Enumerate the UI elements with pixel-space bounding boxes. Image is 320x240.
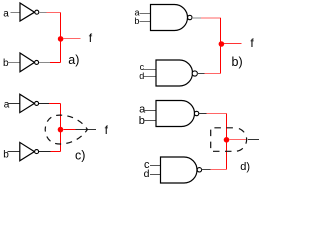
svg-text:a: a <box>139 104 146 116</box>
svg-text:a): a) <box>68 53 79 67</box>
svg-text:d: d <box>144 168 150 180</box>
svg-text:b: b <box>3 58 9 69</box>
svg-text:d): d) <box>240 161 250 173</box>
svg-text:b): b) <box>232 55 243 69</box>
svg-text:a: a <box>4 100 10 111</box>
svg-text:b: b <box>3 149 9 160</box>
svg-text:b: b <box>134 16 139 26</box>
svg-text:d: d <box>139 71 144 81</box>
svg-text:c): c) <box>75 149 85 163</box>
svg-text:a: a <box>3 9 9 20</box>
svg-text:b: b <box>139 115 145 127</box>
